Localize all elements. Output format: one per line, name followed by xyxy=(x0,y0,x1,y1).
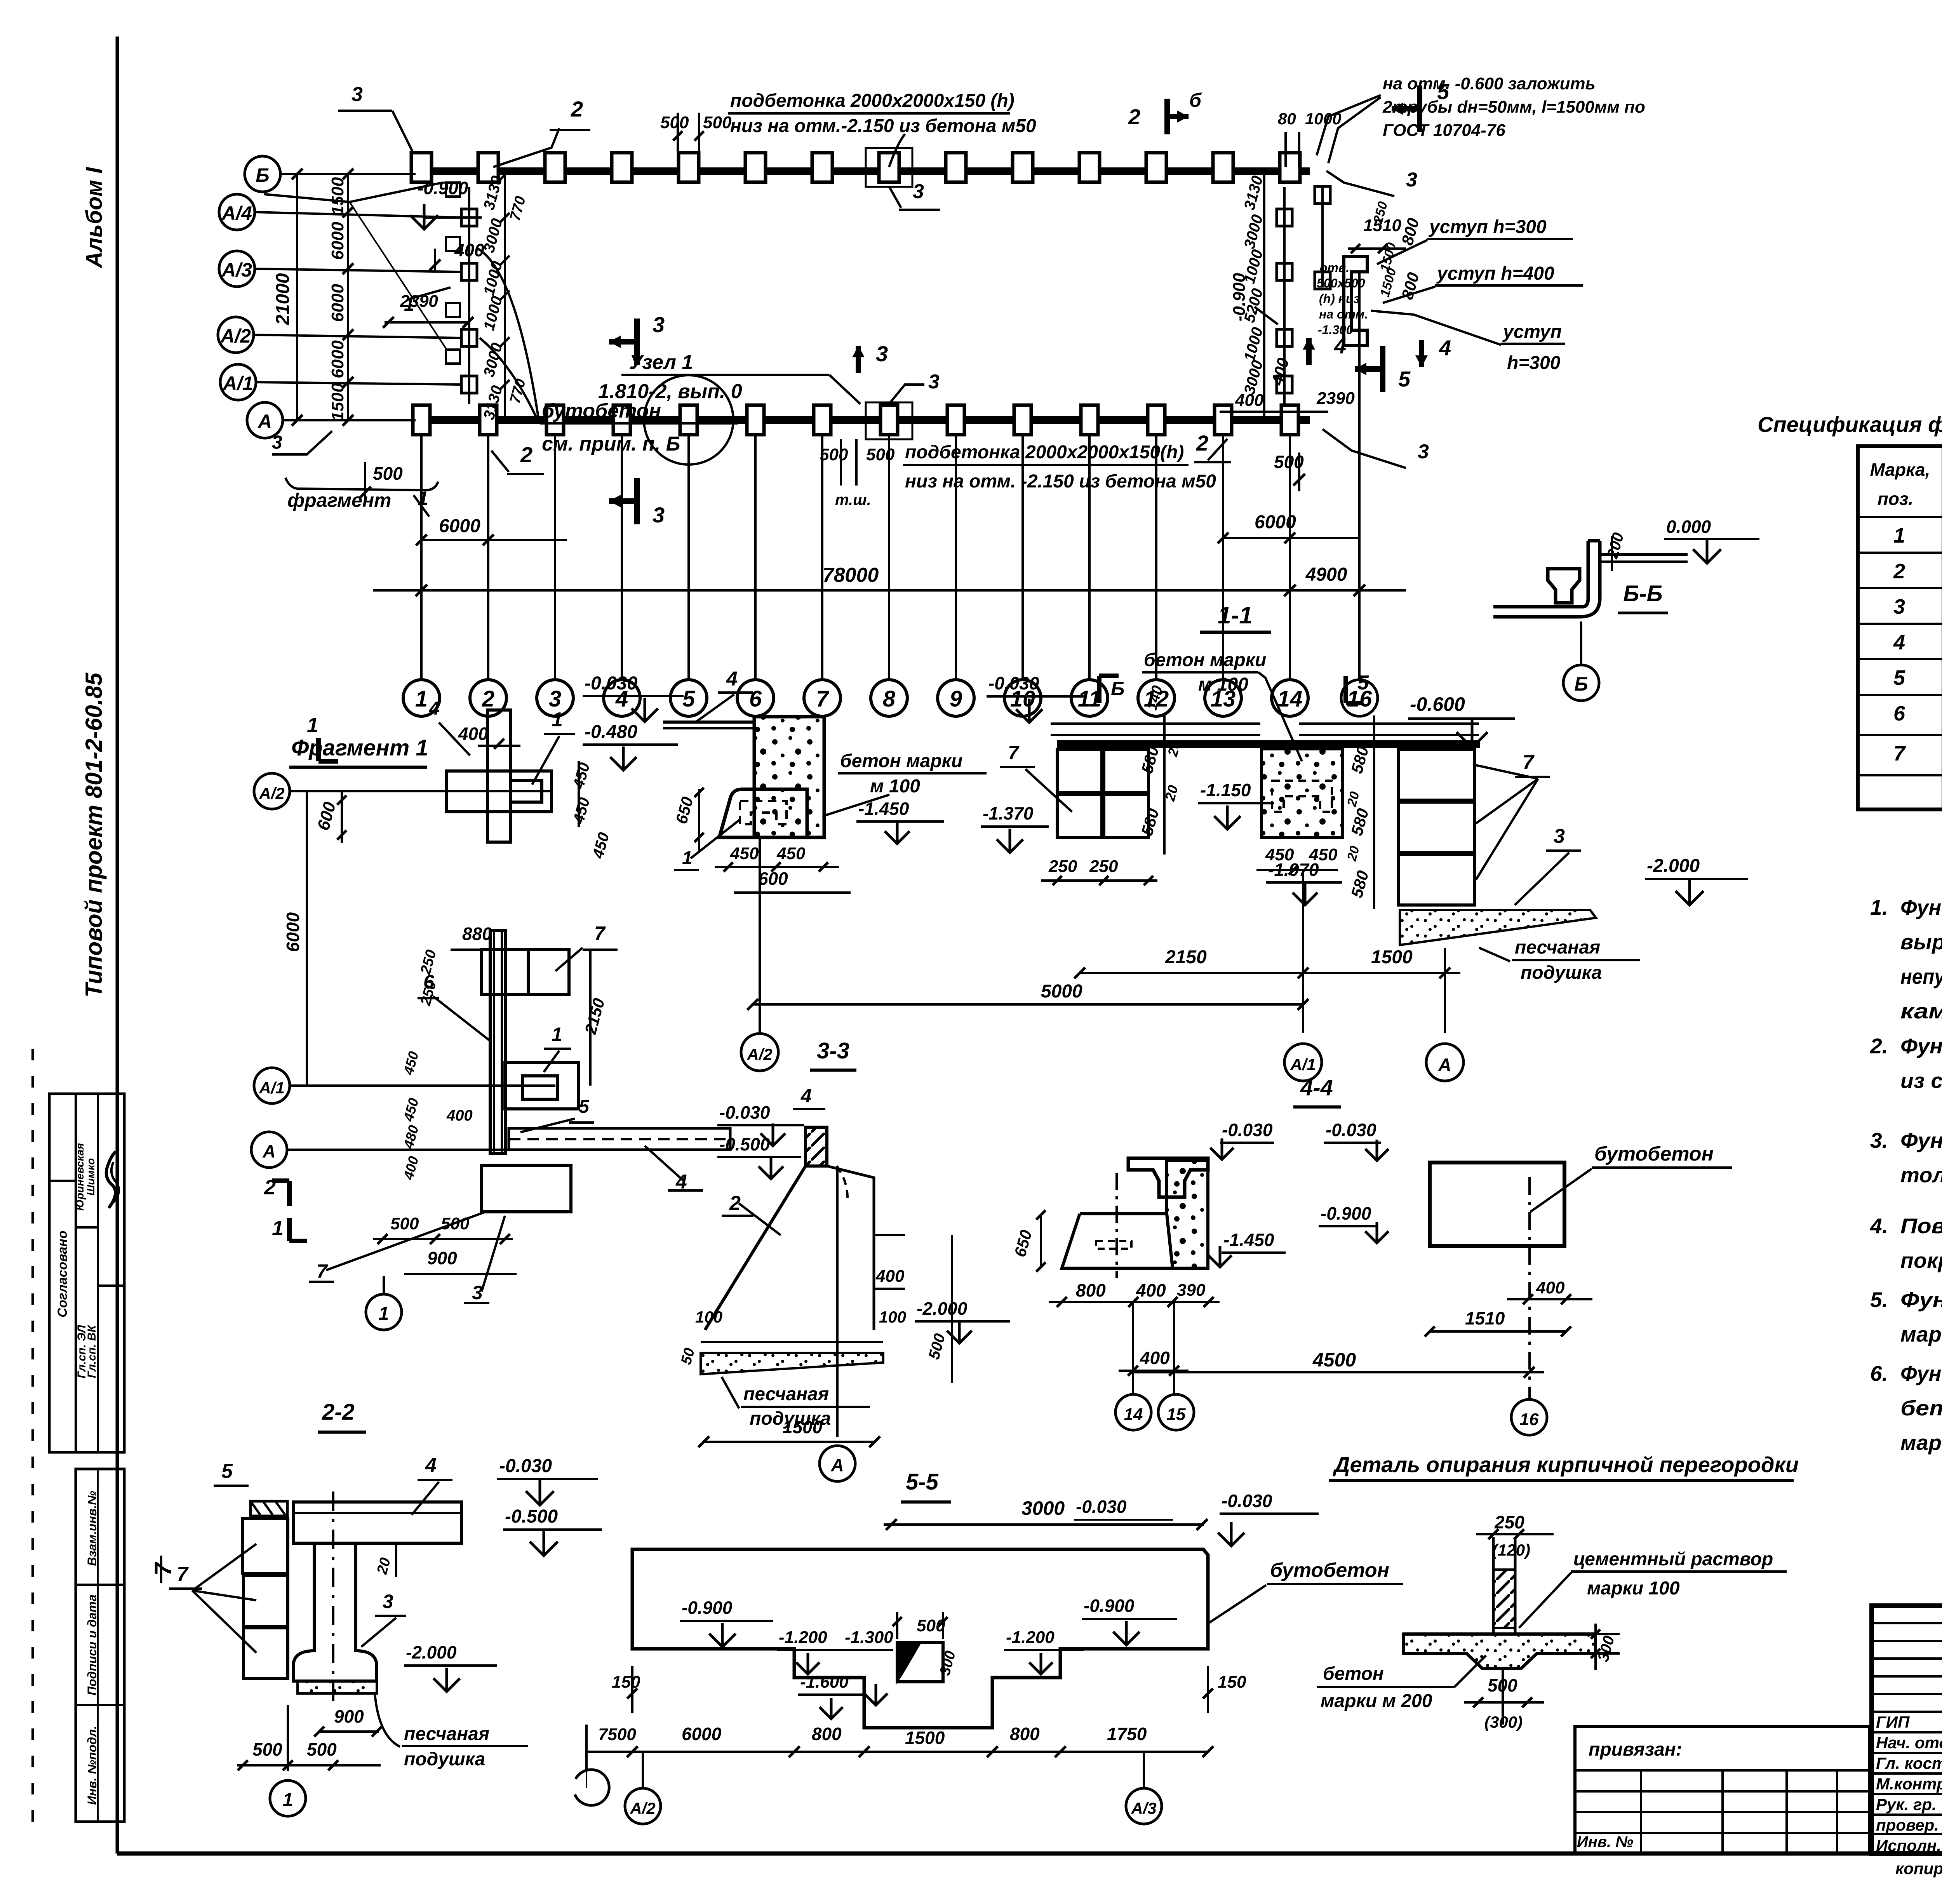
svg-text:3: 3 xyxy=(549,686,561,712)
svg-text:-0.900: -0.900 xyxy=(682,1598,733,1618)
svg-text:бетон марки: бетон марки xyxy=(1144,650,1266,670)
svg-text:-1.150: -1.150 xyxy=(1200,780,1251,800)
svg-text:1-1: 1-1 xyxy=(1218,602,1253,629)
svg-text:6000: 6000 xyxy=(1255,512,1296,533)
svg-text:Гл.сп. ВК: Гл.сп. ВК xyxy=(85,1324,98,1378)
svg-text:4: 4 xyxy=(726,668,738,690)
svg-text:6000: 6000 xyxy=(328,222,347,260)
svg-text:поз.: поз. xyxy=(1878,489,1913,509)
svg-text:400: 400 xyxy=(875,1267,905,1286)
svg-text:Фундаменты под колонны уст: Фундаменты под колонны устанавливать на … xyxy=(1900,1128,1942,1152)
svg-text:3: 3 xyxy=(272,432,282,453)
svg-text:1500: 1500 xyxy=(328,383,347,421)
svg-text:2: 2 xyxy=(1893,560,1905,583)
svg-text:-0.030: -0.030 xyxy=(1222,1491,1272,1511)
svg-text:390: 390 xyxy=(1177,1281,1206,1300)
svg-text:2150: 2150 xyxy=(1165,947,1207,968)
svg-text:Инв. №: Инв. № xyxy=(1577,1833,1633,1850)
svg-text:-0.030: -0.030 xyxy=(988,673,1039,693)
svg-text:6.: 6. xyxy=(1870,1361,1888,1385)
svg-text:0.000: 0.000 xyxy=(1666,517,1711,537)
svg-text:1.810-2, вып. 0: 1.810-2, вып. 0 xyxy=(598,380,742,403)
svg-text:400: 400 xyxy=(446,1107,473,1124)
svg-text:6000: 6000 xyxy=(328,340,347,378)
svg-text:3: 3 xyxy=(1893,595,1905,618)
svg-text:7: 7 xyxy=(1523,751,1535,774)
svg-text:м 100: м 100 xyxy=(870,776,920,797)
svg-text:-0.600: -0.600 xyxy=(1410,693,1465,715)
svg-text:6: 6 xyxy=(1893,702,1905,725)
svg-text:6000: 6000 xyxy=(439,516,480,536)
svg-text:привязан:: привязан: xyxy=(1589,1739,1682,1760)
svg-text:15: 15 xyxy=(1167,1405,1186,1424)
svg-text:-2.000: -2.000 xyxy=(406,1642,457,1662)
svg-text:подушка: подушка xyxy=(1521,962,1602,983)
svg-text:Спецификация фундаментов, бе: Спецификация фундаментов, бетонных блоко… xyxy=(1758,412,1942,437)
svg-text:6000: 6000 xyxy=(682,1724,722,1744)
svg-text:А: А xyxy=(262,1141,275,1161)
svg-text:-0.030: -0.030 xyxy=(1076,1497,1127,1517)
svg-text:6: 6 xyxy=(423,971,435,993)
svg-text:880: 880 xyxy=(462,924,492,944)
svg-text:14: 14 xyxy=(1124,1405,1143,1424)
svg-text:-1.450: -1.450 xyxy=(858,799,909,819)
svg-text:3: 3 xyxy=(1554,825,1565,848)
svg-text:500: 500 xyxy=(703,113,732,132)
svg-text:уступ h=300: уступ h=300 xyxy=(1429,217,1547,237)
svg-text:А/1: А/1 xyxy=(222,372,253,394)
svg-text:5-5: 5-5 xyxy=(906,1469,939,1495)
svg-text:1500: 1500 xyxy=(1371,947,1413,968)
svg-text:450: 450 xyxy=(730,844,759,863)
svg-text:Типовой проект 801-2-60.85: Типовой проект 801-2-60.85 xyxy=(81,672,107,997)
svg-text:бутобетон: бутобетон xyxy=(1270,1559,1389,1582)
svg-text:1: 1 xyxy=(283,1790,293,1810)
svg-text:21000: 21000 xyxy=(273,273,293,325)
svg-text:цементный раствор: цементный раствор xyxy=(1573,1549,1773,1570)
svg-text:3: 3 xyxy=(913,180,924,203)
svg-text:-0.900: -0.900 xyxy=(418,178,468,198)
svg-text:500: 500 xyxy=(866,445,895,464)
svg-text:Фрагмент 1: Фрагмент 1 xyxy=(291,735,428,761)
svg-text:7500: 7500 xyxy=(598,1725,636,1744)
svg-text:на отм. -0.600 заложить: на отм. -0.600 заложить xyxy=(1383,74,1596,93)
svg-text:7: 7 xyxy=(1893,742,1906,765)
svg-text:Поверхности перемычек поз: Поверхности перемычек поз. 5 , 6 , сопри… xyxy=(1900,1214,1942,1238)
svg-text:А/4: А/4 xyxy=(221,202,252,224)
svg-text:3: 3 xyxy=(653,312,665,337)
svg-text:ГИП: ГИП xyxy=(1876,1713,1910,1731)
svg-text:м 100: м 100 xyxy=(1198,674,1248,695)
svg-text:900: 900 xyxy=(427,1248,457,1268)
svg-text:1: 1 xyxy=(552,1023,562,1045)
svg-text:250: 250 xyxy=(1089,857,1118,876)
svg-text:подушка: подушка xyxy=(404,1749,485,1770)
svg-text:500: 500 xyxy=(307,1739,337,1760)
svg-text:7: 7 xyxy=(317,1260,328,1282)
svg-text:Инв. №подл.: Инв. №подл. xyxy=(85,1726,99,1805)
svg-text:5.: 5. xyxy=(1870,1288,1888,1312)
svg-text:800: 800 xyxy=(812,1724,842,1744)
svg-text:-0.030: -0.030 xyxy=(719,1102,770,1123)
svg-text:А/2: А/2 xyxy=(630,1799,655,1817)
svg-text:провер.: провер. xyxy=(1876,1816,1939,1834)
svg-text:-2.000: -2.000 xyxy=(917,1298,968,1319)
svg-text:400: 400 xyxy=(458,724,488,744)
svg-text:2: 2 xyxy=(571,97,583,121)
svg-text:3: 3 xyxy=(352,83,363,106)
svg-text:6: 6 xyxy=(749,686,762,712)
svg-text:5: 5 xyxy=(682,686,695,712)
svg-text:толщиной 100 мм .: толщиной 100 мм . xyxy=(1900,1163,1942,1187)
svg-text:4: 4 xyxy=(429,698,440,719)
svg-text:Гл. костр.: Гл. костр. xyxy=(1876,1754,1942,1772)
svg-text:6000: 6000 xyxy=(283,912,303,952)
svg-text:фрагмент: фрагмент xyxy=(287,489,391,511)
svg-text:3-3: 3-3 xyxy=(817,1038,849,1063)
svg-text:80: 80 xyxy=(1278,110,1296,128)
svg-text:1500: 1500 xyxy=(905,1728,945,1748)
svg-text:400: 400 xyxy=(1536,1278,1565,1297)
svg-text:(120): (120) xyxy=(1492,1541,1530,1559)
svg-text:5: 5 xyxy=(221,1460,233,1483)
svg-text:марки 150 .: марки 150 . xyxy=(1900,1322,1942,1346)
svg-text:Юриневская: Юриневская xyxy=(74,1143,86,1211)
svg-text:выработками, грунтовые воды: выработками, грунтовые воды отсутствуют … xyxy=(1900,930,1942,954)
svg-text:3.: 3. xyxy=(1870,1128,1888,1152)
svg-text:1: 1 xyxy=(1893,524,1905,547)
svg-text:-1.450: -1.450 xyxy=(1223,1230,1274,1250)
svg-text:600: 600 xyxy=(758,868,788,889)
svg-text:3: 3 xyxy=(1406,169,1417,191)
svg-text:А/1: А/1 xyxy=(259,1079,284,1097)
svg-text:2-2: 2-2 xyxy=(322,1399,355,1425)
svg-text:-0.030: -0.030 xyxy=(585,673,637,694)
svg-text:ГОСТ 10704-76: ГОСТ 10704-76 xyxy=(1383,121,1505,140)
svg-text:400: 400 xyxy=(1140,1348,1170,1368)
svg-text:2390: 2390 xyxy=(1316,389,1355,408)
svg-text:400: 400 xyxy=(1136,1280,1166,1300)
svg-text:ками: φн=28°; Сн=0.02 кгс/см²;: ками: φн=28°; Сн=0.02 кгс/см²; Е = 150 к… xyxy=(1900,999,1942,1023)
svg-text:подбетонка 2000х2000х150(h): подбетонка 2000х2000х150(h) xyxy=(905,442,1184,463)
svg-text:3: 3 xyxy=(928,371,940,393)
svg-text:1500: 1500 xyxy=(783,1417,823,1437)
svg-text:3: 3 xyxy=(1418,440,1429,463)
svg-text:Фундаменты помещения навозоу: Фундаменты помещения навозоудаления и от… xyxy=(1900,1361,1942,1385)
svg-text:2: 2 xyxy=(520,442,532,467)
svg-text:-0.900: -0.900 xyxy=(1084,1596,1135,1616)
svg-text:марки м 200: марки м 200 xyxy=(1321,1691,1432,1711)
svg-text:1: 1 xyxy=(379,1304,389,1324)
svg-text:500: 500 xyxy=(660,113,689,132)
svg-text:4: 4 xyxy=(1893,631,1905,654)
svg-text:4: 4 xyxy=(800,1085,812,1107)
svg-text:4: 4 xyxy=(1334,334,1346,358)
svg-text:5000: 5000 xyxy=(1041,981,1082,1002)
svg-text:Рук. гр.: Рук. гр. xyxy=(1876,1795,1937,1813)
svg-text:1: 1 xyxy=(307,714,318,737)
svg-text:250: 250 xyxy=(1494,1512,1524,1532)
svg-text:А/1: А/1 xyxy=(1290,1055,1316,1074)
svg-text:450: 450 xyxy=(776,844,806,863)
svg-text:5: 5 xyxy=(1437,79,1450,104)
svg-text:4.: 4. xyxy=(1870,1214,1888,1238)
svg-text:100: 100 xyxy=(695,1308,722,1326)
svg-text:800: 800 xyxy=(1076,1280,1106,1300)
svg-text:800: 800 xyxy=(1010,1724,1040,1744)
svg-text:1000: 1000 xyxy=(1305,110,1341,128)
svg-text:2: 2 xyxy=(1196,431,1208,455)
svg-text:-2.000: -2.000 xyxy=(1647,856,1700,876)
svg-text:песчаная: песчаная xyxy=(404,1724,489,1744)
svg-text:А: А xyxy=(257,411,272,432)
svg-text:500: 500 xyxy=(917,1616,945,1635)
svg-text:Деталь опирания кирпичной пере: Деталь опирания кирпичной перегородки xyxy=(1333,1452,1799,1477)
svg-text:бутобетон: бутобетон xyxy=(1594,1143,1714,1165)
svg-text:Б: Б xyxy=(256,164,269,186)
svg-text:4-4: 4-4 xyxy=(1300,1075,1333,1100)
svg-text:покрыть горячим битумом: покрыть горячим битумом в два слоя . xyxy=(1900,1248,1942,1272)
svg-text:копир.: копир. xyxy=(1895,1859,1942,1878)
svg-text:низ на отм. -2.150 из бетона: низ на отм. -2.150 из бетона м50 xyxy=(905,471,1216,492)
svg-text:А/2: А/2 xyxy=(747,1045,772,1063)
svg-text:Б: Б xyxy=(1111,678,1124,700)
svg-text:отв.: отв. xyxy=(1320,261,1349,275)
svg-text:4: 4 xyxy=(1439,336,1451,360)
svg-text:из среднезернистого песка: из среднезернистого песка с наклонной по… xyxy=(1900,1069,1942,1093)
svg-text:7: 7 xyxy=(177,1563,189,1586)
svg-text:1500: 1500 xyxy=(328,177,347,215)
svg-text:Марка,: Марка, xyxy=(1870,459,1930,480)
svg-text:низ на отм.-2.150 из бетона м5: низ на отм.-2.150 из бетона м50 xyxy=(730,116,1036,136)
svg-text:-1.200: -1.200 xyxy=(779,1628,827,1647)
svg-text:марки 100: марки 100 xyxy=(1587,1578,1680,1599)
svg-text:Б-Б: Б-Б xyxy=(1623,581,1662,606)
svg-text:уступ: уступ xyxy=(1502,322,1562,342)
svg-text:(h) низ: (h) низ xyxy=(1319,292,1360,306)
svg-text:3000: 3000 xyxy=(1021,1497,1065,1519)
svg-text:-0.500: -0.500 xyxy=(505,1506,558,1527)
svg-text:-1.970: -1.970 xyxy=(1268,860,1319,880)
svg-text:900: 900 xyxy=(334,1706,364,1726)
svg-text:см. прим. п. Б: см. прим. п. Б xyxy=(542,433,680,455)
svg-text:2: 2 xyxy=(1128,104,1140,129)
svg-text:Фундаменты под полурамы: Фундаменты под полурамы устанавливать на… xyxy=(1900,1034,1942,1058)
svg-text:14: 14 xyxy=(1277,686,1303,712)
svg-text:400: 400 xyxy=(1235,391,1264,410)
svg-text:4900: 4900 xyxy=(1305,564,1347,585)
svg-text:1: 1 xyxy=(415,686,428,712)
svg-text:марки по прочности на: марки по прочности на сжатие м 100 . xyxy=(1900,1431,1942,1455)
svg-text:Б: Б xyxy=(1574,673,1588,695)
svg-text:А/2: А/2 xyxy=(220,325,251,347)
svg-text:500: 500 xyxy=(820,445,848,464)
svg-text:подбетонка 2000х2000х150 (h): подбетонка 2000х2000х150 (h) xyxy=(730,91,1015,111)
svg-text:-0.030: -0.030 xyxy=(499,1456,552,1476)
svg-text:5: 5 xyxy=(1893,666,1905,689)
svg-text:1: 1 xyxy=(272,1217,284,1240)
svg-text:2: 2 xyxy=(482,686,494,712)
svg-text:Нач. отд.: Нач. отд. xyxy=(1876,1733,1942,1752)
svg-text:Шимко: Шимко xyxy=(85,1158,97,1196)
svg-text:3: 3 xyxy=(653,503,665,527)
svg-text:Подписи и дата: Подписи и дата xyxy=(85,1594,99,1695)
svg-text:4500: 4500 xyxy=(1312,1349,1356,1371)
svg-text:-0.480: -0.480 xyxy=(585,722,637,742)
svg-text:Взам.инв.№: Взам.инв.№ xyxy=(85,1491,99,1566)
svg-text:500: 500 xyxy=(390,1214,419,1233)
svg-text:100: 100 xyxy=(879,1308,906,1326)
svg-text:Исполн.: Исполн. xyxy=(1876,1836,1941,1855)
svg-text:Фундаменты запроектированы д: Фундаменты запроектированы для площадок … xyxy=(1900,895,1942,919)
svg-text:-0.500: -0.500 xyxy=(719,1134,770,1154)
svg-text:бетонные , из бутового ка: бетонные , из бутового камня марки 200 и… xyxy=(1900,1396,1942,1420)
svg-text:500х500: 500х500 xyxy=(1317,276,1365,290)
svg-text:7: 7 xyxy=(816,686,830,712)
svg-text:-1.600: -1.600 xyxy=(800,1673,849,1692)
svg-text:1.: 1. xyxy=(1870,895,1888,919)
svg-text:500: 500 xyxy=(373,463,403,484)
svg-text:1510: 1510 xyxy=(1465,1308,1505,1328)
svg-text:уступ h=400: уступ h=400 xyxy=(1436,263,1554,284)
svg-text:78000: 78000 xyxy=(823,564,879,587)
svg-text:-1.200: -1.200 xyxy=(1006,1628,1055,1647)
svg-text:-0.030: -0.030 xyxy=(1222,1120,1273,1140)
svg-text:-1.370: -1.370 xyxy=(983,803,1034,823)
svg-text:250: 250 xyxy=(1048,857,1077,876)
svg-text:непучинистые, непросадочные: непучинистые, непросадочные со следующим… xyxy=(1900,964,1942,989)
svg-text:песчаная: песчаная xyxy=(1515,937,1600,958)
svg-text:150: 150 xyxy=(1218,1673,1246,1692)
svg-text:5: 5 xyxy=(1357,672,1369,694)
svg-text:т.ш.: т.ш. xyxy=(835,491,871,508)
svg-text:3: 3 xyxy=(383,1591,393,1612)
svg-text:-1.300: -1.300 xyxy=(845,1628,893,1647)
svg-text:А: А xyxy=(830,1455,844,1475)
svg-text:1: 1 xyxy=(552,708,563,731)
svg-text:М.контр.: М.контр. xyxy=(1876,1775,1942,1793)
svg-text:3: 3 xyxy=(876,341,888,366)
svg-text:на отм.: на отм. xyxy=(1319,307,1368,321)
svg-text:А/3: А/3 xyxy=(221,259,252,281)
svg-text:-0.030: -0.030 xyxy=(1326,1120,1376,1140)
svg-text:-0.900: -0.900 xyxy=(1321,1203,1371,1224)
svg-text:А: А xyxy=(1438,1055,1451,1075)
svg-text:h=300: h=300 xyxy=(1507,353,1561,373)
svg-text:7: 7 xyxy=(150,1562,176,1576)
svg-text:8: 8 xyxy=(883,686,896,712)
svg-text:бетон марки: бетон марки xyxy=(840,751,962,771)
svg-text:2.: 2. xyxy=(1870,1034,1888,1058)
svg-text:А/2: А/2 xyxy=(259,784,284,802)
svg-text:Альбом I: Альбом I xyxy=(82,167,107,269)
svg-text:А/3: А/3 xyxy=(1131,1799,1156,1817)
svg-text:9: 9 xyxy=(950,686,962,712)
svg-text:2390: 2390 xyxy=(400,292,438,311)
svg-text:6000: 6000 xyxy=(328,284,347,322)
svg-text:16: 16 xyxy=(1520,1410,1539,1429)
svg-text:7: 7 xyxy=(594,922,606,944)
svg-text:5: 5 xyxy=(579,1096,590,1117)
svg-text:Согласовано: Согласовано xyxy=(55,1230,70,1317)
svg-text:б: б xyxy=(1189,89,1202,111)
svg-text:Фундаментные балки устан: Фундаментные балки устанавливать на цеме… xyxy=(1900,1288,1942,1312)
svg-text:7: 7 xyxy=(1008,742,1020,764)
svg-text:3: 3 xyxy=(472,1282,483,1304)
svg-text:500: 500 xyxy=(252,1739,282,1760)
svg-text:4: 4 xyxy=(425,1454,437,1477)
svg-text:песчаная: песчаная xyxy=(743,1384,829,1405)
svg-text:бетон: бетон xyxy=(1323,1664,1384,1684)
svg-text:5: 5 xyxy=(1398,367,1411,391)
svg-text:1750: 1750 xyxy=(1107,1724,1147,1744)
